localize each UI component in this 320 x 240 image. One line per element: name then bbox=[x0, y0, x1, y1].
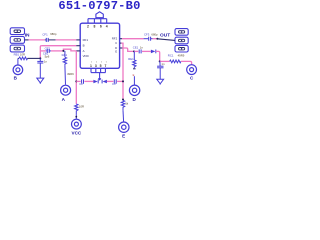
svg-text:RF1: RF1 bbox=[83, 38, 89, 42]
wire row A from vertical bbox=[40, 50, 46, 52]
svg-text:49R9: 49R9 bbox=[67, 72, 74, 76]
connector C bbox=[187, 65, 197, 75]
svg-text:RF2: RF2 bbox=[112, 37, 118, 41]
wire step to pin A bbox=[63, 49, 76, 51]
svg-text:49R9: 49R9 bbox=[178, 54, 185, 58]
capacitor CC1 (to ground, right) bbox=[157, 61, 163, 79]
connector J2 boxes (right, OUT) bbox=[175, 29, 188, 52]
resistor RE1 (hanging) bbox=[133, 51, 135, 60]
connector VCC bbox=[72, 119, 82, 129]
svg-text:E: E bbox=[122, 133, 125, 138]
U1 top pin numbers bbox=[87, 25, 108, 29]
capacitor CE1 bbox=[139, 49, 141, 53]
connector B bbox=[17, 58, 19, 65]
svg-text:RB1: RB1 bbox=[14, 53, 20, 57]
junction VCC/bypass row bbox=[75, 80, 77, 82]
arrow pair node bbox=[93, 80, 97, 83]
svg-text:CF1: CF1 bbox=[42, 33, 48, 37]
svg-text:CB1: CB1 bbox=[43, 52, 49, 56]
connector D bbox=[129, 85, 139, 95]
svg-text:RC1: RC1 bbox=[168, 54, 174, 58]
svg-text:CE1: CE1 bbox=[133, 45, 139, 49]
op IC U1 box bbox=[80, 23, 119, 68]
wire CF1 to U1 RF1 bbox=[56, 39, 77, 41]
resistor RE2 (to E) bbox=[121, 100, 124, 110]
ground (left) bbox=[37, 78, 44, 83]
svg-text:B: B bbox=[83, 44, 85, 48]
top pin bus bar bbox=[88, 19, 107, 24]
svg-text:C2: C2 bbox=[79, 82, 83, 86]
arrow into node bbox=[151, 50, 155, 54]
connector A bbox=[61, 85, 71, 95]
svg-text:VDD: VDD bbox=[83, 54, 89, 58]
capacitor C3 bbox=[107, 80, 114, 82]
resistor RC1 bbox=[170, 60, 181, 63]
U1 right pin labels bbox=[112, 37, 118, 54]
svg-text:VCC: VCC bbox=[72, 131, 82, 136]
capacitor CB1 (to ground, left) bbox=[37, 58, 43, 78]
svg-text:1n: 1n bbox=[140, 45, 144, 49]
resistor RV1 (VCC feed) bbox=[75, 104, 78, 114]
node diamond under U1 bbox=[98, 77, 101, 80]
svg-text:IN: IN bbox=[25, 32, 30, 38]
svg-text:OUT: OUT bbox=[160, 32, 170, 38]
wire U1 RF2 to CF3 bbox=[120, 38, 122, 40]
wire pin C down right side bbox=[120, 42, 122, 44]
svg-text:C3: C3 bbox=[112, 82, 116, 86]
svg-text:8: 8 bbox=[93, 25, 95, 29]
junction at B row bbox=[39, 57, 41, 59]
svg-text:CF3: CF3 bbox=[144, 32, 150, 36]
power symbol above U1 bbox=[96, 12, 103, 19]
svg-text:10R: 10R bbox=[79, 105, 84, 109]
wire U1 pin D to CE1 bbox=[120, 47, 123, 49]
svg-text:680p: 680p bbox=[50, 32, 57, 36]
svg-text:10R: 10R bbox=[20, 53, 25, 57]
resistor RB1 (B row) bbox=[18, 57, 19, 59]
bottom pin bus bracket bbox=[91, 68, 105, 77]
VCC rail vertical bbox=[75, 51, 77, 104]
U1 left pin labels bbox=[83, 38, 89, 58]
capacitor CF3 (output) bbox=[144, 37, 153, 41]
svg-text:680p: 680p bbox=[151, 32, 158, 36]
svg-text:CF2: CF2 bbox=[45, 47, 51, 51]
connector E bbox=[119, 122, 129, 132]
svg-text:RA1: RA1 bbox=[62, 53, 68, 57]
svg-text:E: E bbox=[115, 49, 117, 53]
svg-text:4: 4 bbox=[106, 25, 108, 29]
svg-text:C: C bbox=[115, 41, 117, 45]
svg-text:6: 6 bbox=[100, 25, 102, 29]
wire to RC1 bbox=[160, 60, 170, 62]
capacitor CF2 row3 bbox=[46, 49, 51, 53]
svg-text:RE1: RE1 bbox=[128, 57, 134, 61]
junction C row bbox=[159, 60, 161, 62]
connector J1 boxes (left, IN) bbox=[10, 28, 24, 52]
svg-text:1n: 1n bbox=[44, 59, 48, 63]
wire corner down bbox=[40, 46, 41, 59]
wire row B to U1 bbox=[42, 45, 77, 47]
capacitor CF1 bbox=[45, 38, 56, 42]
resistor RA1 (vertical to A) bbox=[64, 51, 66, 57]
bypass row under U1 bbox=[76, 80, 80, 82]
capacitor C2 bbox=[82, 79, 84, 83]
junction node bbox=[62, 50, 64, 52]
svg-text:2: 2 bbox=[87, 25, 89, 29]
svg-text:A: A bbox=[83, 49, 85, 53]
wire IN to CF1 bbox=[25, 39, 29, 41]
U1 bottom pin numbers bbox=[90, 61, 107, 68]
svg-text:1n: 1n bbox=[161, 62, 165, 66]
ground (right) bbox=[157, 79, 164, 84]
